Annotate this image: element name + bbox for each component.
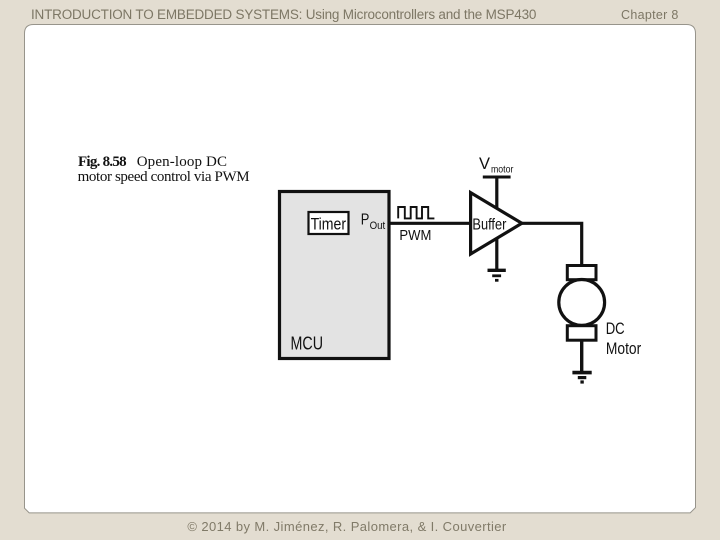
MCU block	[280, 192, 390, 359]
motor bottom terminal	[567, 326, 596, 341]
wire buffer to motor	[521, 223, 582, 265]
PWM waveform	[398, 207, 434, 218]
svg-text:Timer: Timer	[311, 215, 347, 233]
svg-text:motor speed control via PWM: motor speed control via PWM	[78, 169, 250, 185]
svg-text:Buffer: Buffer	[472, 217, 507, 234]
svg-text:MCU: MCU	[291, 333, 324, 353]
svg-text:motor: motor	[491, 163, 514, 175]
Timer box	[309, 212, 349, 234]
svg-text:PWM: PWM	[399, 228, 431, 244]
buffer amplifier triangle	[471, 193, 522, 254]
wire MCU to buffer	[389, 222, 470, 225]
svg-text:DC: DC	[606, 320, 625, 338]
svg-text:Out: Out	[370, 220, 386, 232]
header title	[31, 7, 536, 22]
svg-text:Motor: Motor	[606, 340, 642, 358]
wire Vmotor to buffer	[495, 177, 498, 269]
header chapter	[621, 8, 679, 22]
ground under buffer	[488, 270, 506, 280]
svg-text:V: V	[479, 155, 490, 173]
motor top terminal	[567, 266, 596, 280]
wire motor to ground	[580, 340, 583, 371]
footer copyright	[0, 519, 694, 534]
ground under motor	[572, 373, 591, 382]
svg-text:Fig. 8.58Open-loop DC: Fig. 8.58Open-loop DC	[78, 154, 227, 170]
Vmotor rail	[483, 176, 511, 179]
motor body circle	[559, 280, 605, 326]
svg-text:P: P	[361, 211, 370, 228]
